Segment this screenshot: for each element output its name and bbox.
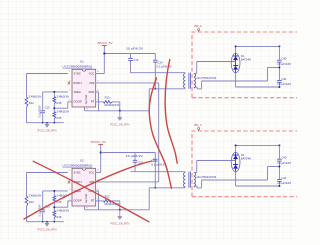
svg-text:R12: R12 xyxy=(29,101,34,105)
svg-text:JPVCC_5V: JPVCC_5V xyxy=(90,140,106,144)
svg-text:R13: R13 xyxy=(105,95,110,99)
svg-text:xfmr750313734: xfmr750313734 xyxy=(196,76,217,80)
svg-text:10 µF/6.3V: 10 µF/6.3V xyxy=(126,47,143,51)
svg-text:Ep Pad: Ep Pad xyxy=(84,95,88,104)
svg-text:C14: C14 xyxy=(158,61,163,65)
svg-text:C10: C10 xyxy=(45,106,50,110)
svg-text:C41: C41 xyxy=(282,77,287,81)
svg-text:C15: C15 xyxy=(133,58,138,62)
svg-text:10 µF/16V: 10 µF/16V xyxy=(277,82,291,86)
svg-text:BR_b: BR_b xyxy=(195,24,203,28)
svg-text:GND: GND xyxy=(89,90,95,94)
svg-text:SYNC: SYNC xyxy=(74,72,81,76)
svg-text:R15: R15 xyxy=(57,101,62,105)
svg-text:R16: R16 xyxy=(57,116,62,120)
svg-text:DIS/FLT: DIS/FLT xyxy=(74,81,83,85)
svg-text:U1: U1 xyxy=(80,59,84,63)
svg-text:3.48kΩ/1%: 3.48kΩ/1% xyxy=(29,94,42,98)
svg-text:D1: D1 xyxy=(241,54,245,58)
svg-text:10 µF/6.3V: 10 µF/6.3V xyxy=(126,154,143,158)
svg-text:PVCC_GN_RTN: PVCC_GN_RTN xyxy=(110,123,129,127)
svg-text:3.48kΩ/1%: 3.48kΩ/1% xyxy=(57,94,70,98)
svg-text:DIM: DIM xyxy=(90,81,95,85)
svg-text:3.48kΩ/1%: 3.48kΩ/1% xyxy=(57,109,70,113)
svg-text:0.1 µF/6.3V: 0.1 µF/6.3V xyxy=(157,65,172,69)
svg-text:UCC25800QDDBRQ1: UCC25800QDDBRQ1 xyxy=(63,64,93,68)
svg-text:OC/OP: OC/OP xyxy=(74,100,83,104)
svg-text:VCC: VCC xyxy=(89,72,95,76)
svg-text:0.1 µF/16V: 0.1 µF/16V xyxy=(38,105,42,117)
svg-text:10 µF/16V: 10 µF/16V xyxy=(277,62,291,66)
svg-text:49.9kΩ/1%: 49.9kΩ/1% xyxy=(104,103,120,107)
svg-text:BAT54W: BAT54W xyxy=(241,57,251,61)
svg-text:VREG: VREG xyxy=(74,90,81,94)
svg-text:RT: RT xyxy=(91,100,95,104)
svg-text:JPVCC_5V: JPVCC_5V xyxy=(97,41,113,45)
svg-text:PVCC_GN_RTN: PVCC_GN_RTN xyxy=(38,128,57,132)
svg-text:C40: C40 xyxy=(282,57,287,61)
